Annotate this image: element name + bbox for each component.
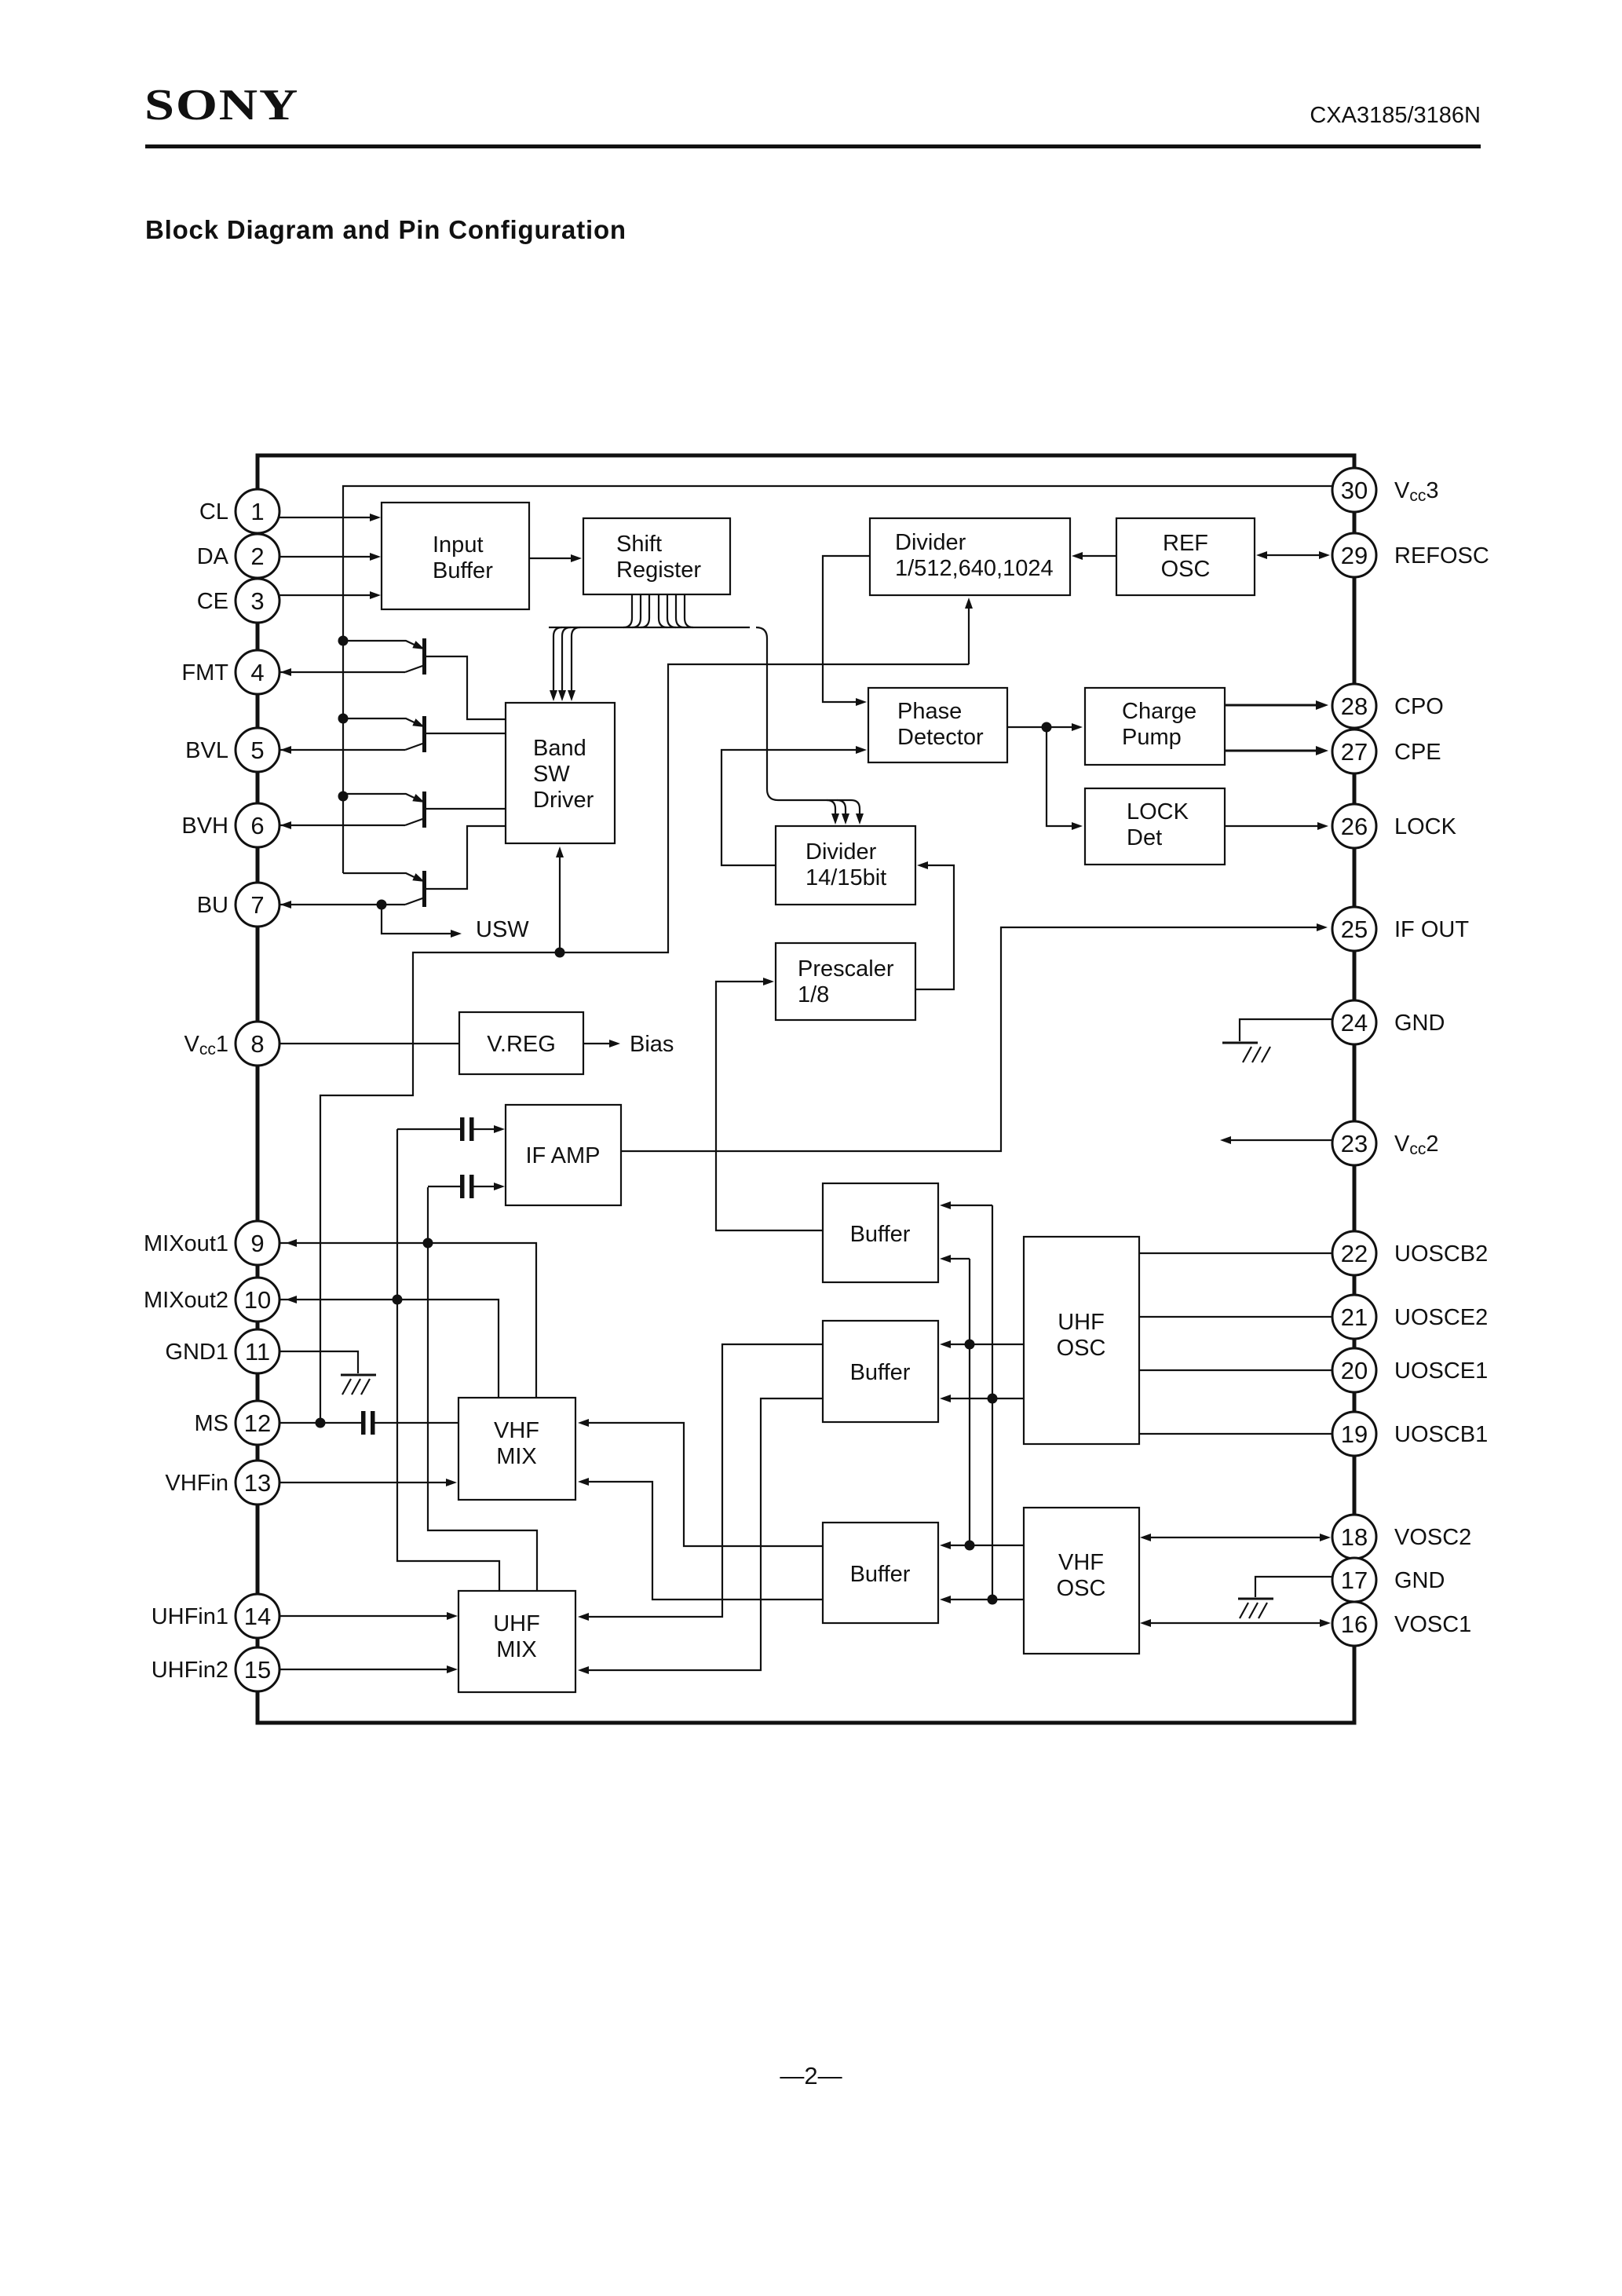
svg-text:Band: Band (533, 736, 586, 761)
svg-text:UOSCB1: UOSCB1 (1394, 1422, 1488, 1447)
wire Input Buffer to Shift Register (529, 554, 582, 562)
svg-text:Buffer: Buffer (433, 558, 493, 583)
wire bus run to Divider 14/15bit (756, 627, 851, 800)
wire Divider output to Phase Detector reference input (823, 556, 870, 706)
svg-text:Buffer: Buffer (850, 1562, 911, 1587)
pin 6 (BVH) terminal circle (181, 803, 279, 847)
wire IF AMP output to pin 25 IF OUT (621, 923, 1328, 1151)
wire UHF OSC output B to Buffer stages (940, 1394, 1024, 1404)
svg-text:22: 22 (1341, 1240, 1368, 1267)
wire pin 17 to ground (1255, 1577, 1353, 1597)
wire UHF OSC output A to Buffer stages (940, 1340, 1024, 1350)
wire UHF OSC to pin 22 UOSCB2 (1139, 1252, 1332, 1254)
wire Q4 collector to Band SW Driver (426, 826, 506, 889)
svg-text:Detector: Detector (897, 725, 984, 750)
svg-text:17: 17 (1341, 1567, 1368, 1594)
svg-text:20: 20 (1341, 1357, 1368, 1384)
capacitor C2 to IF AMP input 2 (428, 1175, 505, 1198)
ground symbol at pin 17 (1238, 1599, 1273, 1618)
wire bus branch to Divider 14/15bit input 1 (827, 800, 839, 824)
pin 29 (REFOSC) terminal circle (1332, 533, 1489, 577)
transistor Q3 (BVH band switch) (343, 792, 426, 828)
svg-text:UOSCE2: UOSCE2 (1394, 1305, 1488, 1330)
pin 16 (VOSC1) terminal circle (1332, 1602, 1471, 1646)
wire pin 15 UHFin2 to UHF MIX (259, 1665, 458, 1673)
wire bottom Buffer output B to VHF MIX (578, 1478, 823, 1600)
ground symbol at pin 24 (1222, 1043, 1270, 1062)
svg-text:Buffer: Buffer (850, 1222, 911, 1247)
node base bus tap pin4 (338, 636, 349, 646)
wire Q1 collector to Band SW Driver (426, 656, 506, 719)
wire Q1 emitter to pin 4 (275, 668, 405, 676)
wire Q3 emitter to pin 6 (275, 821, 405, 829)
svg-text:UHFin2: UHFin2 (152, 1658, 228, 1683)
wire pin 24 to ground (1240, 1019, 1353, 1041)
wire pin 14 UHFin1 to UHF MIX (259, 1612, 458, 1620)
svg-text:7: 7 (250, 891, 264, 919)
svg-text:8: 8 (250, 1030, 264, 1058)
block U3 Divider 1/512,640,1024 (870, 518, 1070, 595)
pin 18 (VOSC2) terminal circle (1332, 1515, 1471, 1559)
wire bus branch to Divider 14/15bit input 2 (837, 800, 849, 824)
pin 21 (UOSCE2) terminal circle (1332, 1295, 1488, 1339)
wire Q4 emitter to pin 7 (275, 901, 405, 909)
wire pin 12 MS line with coupling capacitor C3 to VHF MIX (259, 1422, 361, 1424)
wire Phase Detector output to Charge Pump (1007, 722, 1083, 733)
block U17 VHF OSC (1024, 1508, 1139, 1654)
wire middle Buffer output B to UHF MIX (578, 1398, 823, 1674)
pin 20 (UOSCE1) terminal circle (1332, 1348, 1488, 1392)
svg-text:CPO: CPO (1394, 694, 1444, 719)
wire UHF OSC to pin 19 UOSCB1 (1139, 1433, 1332, 1435)
svg-text:MIXout2: MIXout2 (144, 1288, 228, 1313)
svg-text:OSC: OSC (1057, 1576, 1106, 1601)
capacitor C3 on MS line (361, 1411, 458, 1435)
block U12 IF AMP (506, 1105, 621, 1205)
svg-text:30: 30 (1341, 477, 1368, 504)
svg-text:Prescaler: Prescaler (798, 956, 894, 982)
svg-text:FMT: FMT (181, 660, 228, 686)
wire arrow into Divider ratio select input (965, 598, 973, 664)
svg-text:2: 2 (250, 543, 264, 570)
wire Q3 collector to Band SW Driver (426, 808, 506, 810)
svg-text:28: 28 (1341, 693, 1368, 720)
wire shift register bus horizontal run (549, 627, 750, 628)
svg-text:UHFin1: UHFin1 (152, 1604, 228, 1629)
svg-text:3: 3 (250, 587, 264, 615)
svg-text:Buffer: Buffer (850, 1360, 911, 1385)
svg-text:Input: Input (433, 532, 484, 558)
svg-text:—2—: —2— (780, 2062, 842, 2089)
pin 14 (UHFin1) terminal circle (152, 1594, 279, 1638)
svg-text:CXA3185/3186N: CXA3185/3186N (1310, 103, 1481, 128)
svg-text:6: 6 (250, 812, 264, 839)
pin 10 (MIXout2) terminal circle (144, 1278, 279, 1322)
wire REF OSC to Divider (1072, 552, 1116, 560)
svg-text:14/15bit: 14/15bit (806, 865, 886, 890)
svg-text:V.REG: V.REG (487, 1032, 556, 1057)
svg-text:5: 5 (250, 737, 264, 764)
svg-text:VHFin: VHFin (165, 1471, 228, 1496)
IC outer boundary (258, 455, 1354, 1723)
svg-text:Block Diagram and Pin Configur: Block Diagram and Pin Configuration (145, 215, 627, 244)
block U13 Buffer (top) (823, 1183, 938, 1282)
svg-text:UOSCB2: UOSCB2 (1394, 1241, 1488, 1267)
svg-text:SW: SW (533, 762, 570, 787)
svg-text:12: 12 (244, 1409, 271, 1437)
svg-text:BVL: BVL (185, 738, 228, 763)
wire Phase Detector output branch to LOCK Det (1047, 727, 1083, 830)
pin 17 (GND) terminal circle (1332, 1558, 1445, 1602)
svg-text:11: 11 (245, 1338, 270, 1366)
pin 11 (GND1) terminal circle (165, 1329, 279, 1373)
wire bus branch to Band SW Driver input 2 (558, 627, 571, 701)
pin 26 (LOCK) terminal circle (1332, 804, 1457, 848)
wire MIXout2 net: pin10, coupling cap, UHF MIX output (259, 1129, 499, 1591)
capacitor C1 to IF AMP input 1 (397, 1117, 505, 1141)
svg-text:1: 1 (250, 498, 264, 525)
svg-text:MIX: MIX (496, 1637, 537, 1662)
wire Vcc2 distribution arrow from pin 23 (1220, 1136, 1353, 1144)
svg-text:VOSC2: VOSC2 (1394, 1525, 1471, 1550)
svg-text:BVH: BVH (181, 813, 228, 839)
pin 9 (MIXout1) terminal circle (144, 1221, 279, 1265)
pin 23 (VCC2) terminal circle (1332, 1121, 1438, 1165)
wire VHF OSC output A to Buffer stages (940, 1541, 1024, 1551)
svg-text:13: 13 (244, 1469, 271, 1497)
pin 22 (UOSCB2) terminal circle (1332, 1231, 1488, 1275)
svg-text:REFOSC: REFOSC (1394, 543, 1489, 569)
svg-text:4: 4 (250, 659, 264, 686)
wire pin1 CL to Input Buffer (259, 514, 381, 521)
wire UHF OSC to pin 21 UOSCE2 (1139, 1316, 1332, 1318)
svg-text:Divider: Divider (806, 839, 877, 865)
svg-text:1/8: 1/8 (798, 982, 829, 1007)
svg-text:IF OUT: IF OUT (1394, 917, 1469, 942)
svg-text:Charge: Charge (1122, 699, 1196, 724)
wire pin3 CE to Input Buffer (259, 591, 381, 599)
wire VHF OSC to pin 18 VOSC2 (bidirectional) (1140, 1534, 1331, 1541)
transistor Q1 (FMT band switch) (343, 638, 426, 675)
pin 5 (BVL) terminal circle (185, 728, 279, 772)
wire Charge Pump to pin 27 CPE (1225, 746, 1328, 755)
pin 13 (VHFin) terminal circle (165, 1461, 279, 1504)
block U11 V.REG (459, 1012, 583, 1074)
svg-text:Det: Det (1127, 825, 1162, 850)
block U18 VHF MIX (458, 1398, 575, 1500)
pin 3 (CE) terminal circle (197, 579, 279, 623)
pin 2 (DA) terminal circle (197, 534, 279, 578)
wire bottom Buffer output A to VHF MIX (578, 1419, 823, 1546)
svg-text:LOCK: LOCK (1394, 814, 1457, 839)
pin 25 (IF OUT) terminal circle (1332, 907, 1469, 951)
transistor Q2 (BVL band switch) (343, 716, 426, 752)
block U7 Charge Pump (1085, 688, 1225, 765)
svg-text:Driver: Driver (533, 788, 594, 813)
wire pin 8 Vcc1 to V.REG (259, 1043, 459, 1044)
svg-text:SONY: SONY (144, 80, 299, 130)
node Band SW bottom tap (555, 948, 565, 958)
svg-text:CE: CE (197, 589, 228, 614)
SONY logo (144, 80, 299, 130)
wire Prescaler output to Divider 14/15bit (915, 861, 954, 989)
wire Q2 collector to Band SW Driver (426, 733, 506, 734)
svg-text:GND: GND (1394, 1011, 1445, 1036)
pin 4 (FMT) terminal circle (181, 650, 279, 694)
pin 19 (UOSCB1) terminal circle (1332, 1412, 1488, 1456)
svg-text:19: 19 (1341, 1420, 1368, 1448)
wire V.REG to Bias output (583, 1040, 620, 1047)
svg-text:REF: REF (1163, 531, 1208, 556)
svg-text:29: 29 (1341, 542, 1368, 569)
svg-text:MS: MS (195, 1411, 229, 1436)
svg-text:UHF: UHF (1058, 1310, 1105, 1335)
wire UHF OSC to pin 20 UOSCE1 (1139, 1369, 1332, 1371)
svg-text:23: 23 (1341, 1130, 1368, 1157)
wire MIXout1 net: pin9, coupling cap, VHF MIX output (259, 1187, 537, 1591)
svg-text:LOCK: LOCK (1127, 799, 1189, 824)
svg-text:IF AMP: IF AMP (525, 1143, 600, 1168)
svg-text:DA: DA (197, 544, 229, 569)
svg-text:CL: CL (199, 499, 228, 525)
svg-text:14: 14 (244, 1603, 271, 1630)
svg-text:UOSCE1: UOSCE1 (1394, 1358, 1488, 1384)
pin 12 (MS) terminal circle (195, 1401, 280, 1445)
svg-text:VOSC1: VOSC1 (1394, 1612, 1471, 1637)
wire oscillator select line B to top Buffer (940, 1201, 992, 1600)
block U1 Input Buffer (382, 503, 529, 609)
node USW tap on BU line (377, 900, 387, 910)
svg-text:Register: Register (616, 558, 701, 583)
block U10 Prescaler 1/8 (776, 943, 915, 1020)
wire bus branch to Band SW Driver input 1 (550, 627, 562, 701)
wire Vcc3 rail from pin30 to band switch base bus (343, 486, 1335, 873)
svg-text:9: 9 (250, 1230, 264, 1257)
svg-text:25: 25 (1341, 916, 1368, 943)
svg-text:Phase: Phase (897, 699, 962, 724)
svg-text:27: 27 (1341, 738, 1368, 766)
svg-text:Divider: Divider (895, 530, 966, 555)
ground symbol at pin 11 GND1 (341, 1375, 376, 1395)
transistor Q4 (BU band switch) (343, 871, 426, 907)
svg-text:MIX: MIX (496, 1444, 537, 1469)
svg-text:GND: GND (1394, 1568, 1445, 1593)
svg-text:CPE: CPE (1394, 740, 1441, 765)
wire Divider 14/15bit output to Phase Detector input (721, 746, 867, 865)
wire bus branch to Divider 14/15bit input 3 (851, 800, 864, 824)
wire oscillator select line A to top Buffer (940, 1255, 970, 1545)
svg-text:VHF: VHF (1058, 1550, 1104, 1575)
block U5 Band SW Driver (506, 703, 615, 843)
wire pin 13 VHFin to VHF MIX (259, 1479, 457, 1486)
node base bus tap pin5 (338, 714, 349, 724)
header rule (145, 144, 1481, 148)
wire VHF OSC output B to Buffer stages (940, 1595, 1024, 1605)
svg-text:Pump: Pump (1122, 725, 1182, 750)
svg-text:OSC: OSC (1057, 1336, 1106, 1361)
wire bus branch to Band SW Driver input 3 (568, 627, 580, 701)
pin 30 (VCC3) terminal circle (1332, 468, 1438, 512)
block U15 Buffer (bottom) (823, 1523, 938, 1623)
svg-text:18: 18 (1341, 1523, 1368, 1551)
svg-text:VHF: VHF (494, 1418, 539, 1443)
block U4 REF OSC (1116, 518, 1255, 595)
pin 15 (UHFin2) terminal circle (152, 1647, 279, 1691)
svg-text:1/512,640,1024: 1/512,640,1024 (895, 556, 1054, 581)
block U14 Buffer (middle) (823, 1321, 938, 1422)
node MS net junction (316, 1418, 326, 1428)
wire pin 11 GND1 to ground (259, 1351, 358, 1373)
svg-text:21: 21 (1341, 1303, 1368, 1331)
wire shift register output bus drops (623, 595, 693, 627)
svg-text:UHF: UHF (493, 1611, 540, 1636)
block U6 Phase Detector (868, 688, 1007, 762)
wire Charge Pump to pin 28 CPO (1225, 700, 1328, 710)
pin 8 (VCC1) terminal circle (184, 1022, 279, 1066)
svg-text:24: 24 (1341, 1009, 1368, 1036)
pin 27 (CPE) terminal circle (1332, 729, 1441, 773)
block U9 Divider 14/15bit (776, 826, 915, 905)
svg-text:15: 15 (244, 1656, 271, 1684)
svg-text:26: 26 (1341, 813, 1368, 840)
block U19 UHF MIX (458, 1591, 575, 1692)
svg-text:OSC: OSC (1161, 557, 1211, 582)
block U8 LOCK Det (1085, 788, 1225, 865)
svg-text:USW: USW (476, 917, 529, 942)
svg-text:16: 16 (1341, 1610, 1368, 1638)
block U2 Shift Register (583, 518, 730, 594)
pin 1 (CL) terminal circle (199, 489, 279, 533)
wire VHF OSC to pin 16 VOSC1 (bidirectional) (1140, 1619, 1331, 1627)
svg-text:MIXout1: MIXout1 (144, 1231, 228, 1256)
wire arrow into Band SW Driver bottom (556, 846, 564, 952)
svg-text:10: 10 (244, 1286, 271, 1314)
pin 28 (CPO) terminal circle (1332, 684, 1444, 728)
wire LOCK Det to pin 26 LOCK (1225, 822, 1328, 830)
svg-text:GND1: GND1 (165, 1340, 228, 1365)
wire USW internal signal indicator (382, 905, 462, 938)
wire Buffer to Prescaler input (716, 978, 823, 1230)
wire middle Buffer output A to UHF MIX (578, 1344, 823, 1621)
svg-text:BU: BU (197, 893, 228, 918)
wire MS mode select net to Band SW Driver and Divider ratio select (320, 664, 969, 1423)
pin 24 (GND) terminal circle (1332, 1000, 1445, 1044)
block U16 UHF OSC (1024, 1237, 1139, 1444)
svg-text:Shift: Shift (616, 532, 662, 557)
node base bus tap pin6 (338, 792, 349, 802)
wire pin2 DA to Input Buffer (259, 553, 381, 561)
wire REF OSC to pin29 REFOSC (bidirectional) (1256, 551, 1330, 559)
wire Q2 emitter to pin 5 (275, 746, 405, 754)
pin 7 (BU) terminal circle (197, 883, 279, 927)
svg-text:Bias: Bias (630, 1032, 674, 1057)
